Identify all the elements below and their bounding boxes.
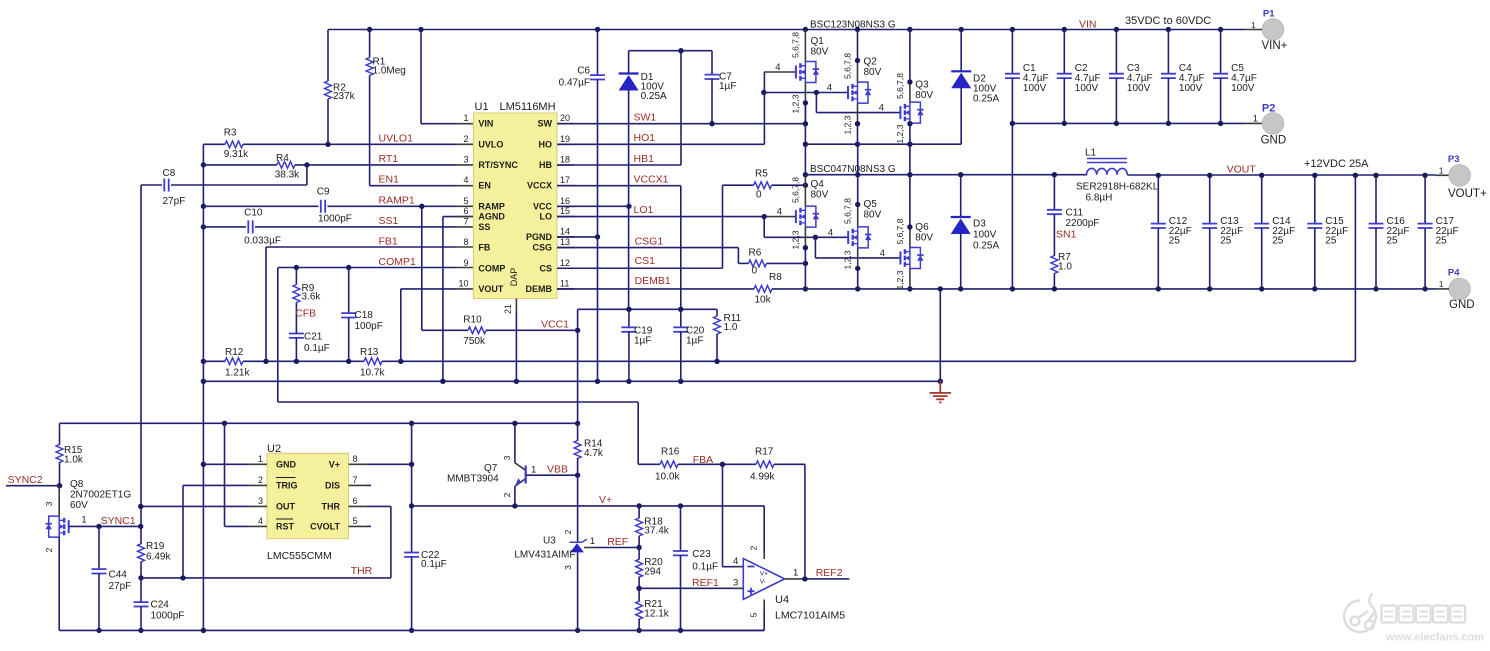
- svg-text:10.7k: 10.7k: [360, 368, 385, 379]
- svg-text:VIN: VIN: [478, 119, 493, 129]
- svg-text:80V: 80V: [811, 190, 829, 201]
- svg-text:SYNC2: SYNC2: [8, 474, 43, 486]
- resistor R2: [327, 30, 329, 82]
- svg-text:LMC7101AIM5: LMC7101AIM5: [775, 610, 845, 622]
- svg-text:10.0k: 10.0k: [655, 472, 680, 483]
- svg-text:C11: C11: [1066, 208, 1084, 219]
- svg-text:C23: C23: [692, 549, 711, 560]
- wire AGND left rail: [202, 144, 204, 630]
- svg-text:2: 2: [44, 547, 54, 552]
- svg-text:U4: U4: [775, 594, 789, 606]
- svg-text:SYNC1: SYNC1: [101, 515, 136, 527]
- svg-text:VOUT: VOUT: [1227, 164, 1257, 176]
- capacitor C24: [140, 578, 142, 602]
- svg-text:20: 20: [560, 113, 570, 123]
- svg-text:100V: 100V: [1231, 83, 1255, 94]
- svg-text:MMBT3904: MMBT3904: [447, 474, 499, 485]
- svg-text:CSG1: CSG1: [635, 236, 664, 248]
- svg-text:REF: REF: [607, 536, 628, 548]
- svg-text:80V: 80V: [864, 210, 882, 221]
- svg-text:1: 1: [590, 536, 595, 547]
- svg-text:DEMB1: DEMB1: [635, 275, 671, 287]
- diode D2: [960, 30, 962, 72]
- wire EN1: [370, 185, 456, 187]
- svg-text:VCC1: VCC1: [541, 319, 569, 331]
- svg-text:1000pF: 1000pF: [318, 214, 352, 225]
- resistor R9: [295, 268, 297, 285]
- capacitor C9: [203, 205, 318, 207]
- wire U2 RST pin4: [225, 525, 250, 527]
- svg-text:1,2,3: 1,2,3: [843, 115, 853, 134]
- svg-text:4: 4: [827, 83, 832, 94]
- capacitor C7: [711, 51, 713, 75]
- svg-text:R13: R13: [360, 347, 379, 358]
- svg-text:750k: 750k: [463, 336, 486, 347]
- svg-text:0.25A: 0.25A: [641, 91, 667, 102]
- svg-text:0.033µF: 0.033µF: [244, 236, 281, 247]
- wire FB1: [266, 246, 456, 248]
- svg-text:1,2,3: 1,2,3: [895, 124, 905, 143]
- wire AGND rail: [203, 380, 940, 382]
- svg-text:3: 3: [463, 155, 468, 165]
- wire VCC1 branch: [577, 309, 579, 423]
- wire CS1: [557, 267, 723, 269]
- capacitor C19: [628, 309, 630, 327]
- svg-text:7: 7: [463, 216, 468, 226]
- svg-text:THR: THR: [322, 502, 341, 512]
- wire CSG1: [557, 247, 738, 249]
- capacitor C15: [1314, 175, 1316, 223]
- svg-text:C9: C9: [317, 187, 330, 198]
- resistor R21: [638, 588, 640, 601]
- svg-text:13: 13: [560, 237, 570, 247]
- wire output GND stub: [1436, 288, 1449, 290]
- transistor Q1: [796, 62, 819, 83]
- svg-text:BSC123N08NS3 G: BSC123N08NS3 G: [810, 20, 896, 31]
- capacitor C6: [597, 30, 599, 75]
- svg-text:1µF: 1µF: [686, 336, 703, 347]
- svg-text:HO: HO: [539, 139, 553, 149]
- svg-text:2N7002ET1G: 2N7002ET1G: [70, 490, 131, 501]
- svg-text:Q6: Q6: [915, 222, 929, 233]
- svg-text:DIS: DIS: [325, 481, 340, 491]
- svg-text:TRIG: TRIG: [276, 481, 298, 491]
- capacitor C8: [306, 165, 308, 185]
- svg-text:SN1: SN1: [1056, 229, 1077, 241]
- svg-text:10k: 10k: [755, 295, 772, 306]
- svg-text:4: 4: [463, 175, 468, 185]
- svg-text:80V: 80V: [864, 67, 882, 78]
- resistor R1: [369, 30, 371, 58]
- svg-text:5,6,7,8: 5,6,7,8: [843, 53, 853, 79]
- svg-text:2200pF: 2200pF: [1066, 218, 1100, 229]
- svg-text:C21: C21: [304, 332, 323, 343]
- wire VCC pin16: [557, 205, 629, 207]
- svg-text:8: 8: [463, 237, 468, 247]
- svg-text:5,6,7,8: 5,6,7,8: [790, 177, 800, 203]
- svg-text:38.3k: 38.3k: [275, 170, 300, 181]
- svg-text:R8: R8: [769, 272, 782, 283]
- svg-text:2: 2: [463, 134, 468, 144]
- svg-text:6: 6: [463, 206, 468, 216]
- svg-text:18: 18: [560, 155, 570, 165]
- svg-text:4: 4: [258, 516, 263, 526]
- svg-text:FB1: FB1: [379, 236, 398, 248]
- svg-text:294: 294: [644, 567, 661, 578]
- svg-text:5,6,7,8: 5,6,7,8: [843, 198, 853, 224]
- svg-text:11: 11: [560, 278, 569, 288]
- op-amp U1 box LM5116MH: [473, 113, 557, 299]
- svg-text:6: 6: [353, 496, 358, 506]
- svg-text:1.21k: 1.21k: [225, 368, 250, 379]
- svg-text:C18: C18: [355, 310, 374, 321]
- svg-text:SER2918H-682KL: SER2918H-682KL: [1076, 182, 1159, 193]
- wire VIN pin1 drop: [420, 30, 422, 124]
- svg-text:VBB: VBB: [547, 464, 568, 476]
- svg-text:3.6k: 3.6k: [302, 292, 322, 303]
- svg-text:UVLO: UVLO: [478, 139, 503, 149]
- svg-text:1: 1: [1253, 113, 1258, 124]
- wire REF2 output: [785, 578, 805, 580]
- wire COMP1 route down: [277, 268, 279, 403]
- svg-text:Q4: Q4: [811, 179, 825, 190]
- svg-text:VCCX: VCCX: [527, 181, 552, 191]
- svg-text:UVLO1: UVLO1: [379, 133, 414, 145]
- op-amp U4 LMC7101AIM5: [743, 559, 784, 600]
- svg-text:6.49k: 6.49k: [146, 552, 171, 563]
- svg-text:1,2,3: 1,2,3: [790, 94, 800, 113]
- svg-text:VOUT: VOUT: [478, 284, 504, 294]
- svg-text:237k: 237k: [333, 91, 356, 102]
- resistor R15: [59, 423, 61, 445]
- svg-text:C44: C44: [109, 570, 128, 581]
- svg-text:VOUT+: VOUT+: [1448, 188, 1487, 200]
- svg-text:C8: C8: [163, 168, 176, 179]
- timer U2 box LMC555CMM: [267, 453, 349, 538]
- resistor R20: [638, 548, 640, 560]
- wire SW node to L1: [805, 174, 1087, 176]
- wire C8 sync column: [140, 185, 142, 526]
- svg-text:C24: C24: [151, 600, 170, 611]
- wire HO1: [557, 143, 764, 145]
- svg-text:0: 0: [756, 190, 762, 201]
- svg-text:100pF: 100pF: [355, 321, 383, 332]
- capacitor C18: [348, 268, 350, 314]
- svg-text:0.25A: 0.25A: [973, 94, 999, 105]
- wire AGND pin6: [443, 216, 474, 218]
- capacitor C11 snubber: [1053, 175, 1055, 210]
- wire VCCX1: [557, 185, 681, 187]
- svg-text:1.0: 1.0: [724, 322, 738, 333]
- svg-text:Q7: Q7: [484, 463, 498, 474]
- svg-text:12.1k: 12.1k: [644, 609, 669, 620]
- svg-text:EN1: EN1: [379, 174, 400, 186]
- wire SYNC1: [69, 525, 141, 527]
- wire FBA to pin4: [722, 464, 724, 566]
- svg-text:1: 1: [1439, 165, 1444, 175]
- svg-text:R5: R5: [755, 169, 768, 180]
- wire VOUT rail: [1126, 174, 1128, 177]
- svg-text:7: 7: [353, 475, 358, 485]
- svg-text:15: 15: [560, 206, 570, 216]
- svg-text:LMV431AIMF: LMV431AIMF: [514, 550, 575, 561]
- svg-text:80V: 80V: [811, 47, 829, 58]
- wire U2 V+ pin8: [367, 463, 412, 465]
- wire U2 DIS stub: [367, 484, 372, 486]
- svg-text:AGND: AGND: [478, 212, 505, 222]
- svg-text:REF2: REF2: [816, 567, 843, 579]
- svg-text:R6: R6: [749, 248, 762, 259]
- svg-text:Q8: Q8: [70, 479, 84, 490]
- svg-text:GND: GND: [1261, 135, 1287, 147]
- svg-text:1µF: 1µF: [634, 336, 651, 347]
- transistor Q4: [796, 206, 819, 227]
- svg-text:HB1: HB1: [634, 153, 655, 165]
- resistor R16: [638, 463, 660, 465]
- svg-text:25: 25: [1169, 236, 1181, 247]
- svg-text:CS: CS: [539, 263, 552, 273]
- svg-text:FBA: FBA: [693, 454, 713, 466]
- resistor R12: [203, 360, 225, 362]
- svg-text:4: 4: [777, 207, 782, 218]
- resistor R11: [716, 309, 718, 316]
- transistor Q2: [848, 82, 871, 103]
- svg-text:4: 4: [880, 248, 885, 259]
- svg-text:RST: RST: [276, 522, 295, 532]
- svg-text:5: 5: [749, 612, 759, 617]
- svg-text:4.99k: 4.99k: [750, 472, 775, 483]
- svg-text:14: 14: [560, 226, 570, 236]
- capacitor C22: [411, 423, 413, 552]
- svg-text:3: 3: [733, 578, 738, 589]
- svg-text:C6: C6: [577, 66, 590, 77]
- svg-text:0.1µF: 0.1µF: [692, 562, 718, 573]
- resistor R10: [421, 206, 423, 330]
- svg-text:R12: R12: [225, 347, 244, 358]
- svg-text:10: 10: [458, 278, 468, 288]
- svg-text:5,6,7,8: 5,6,7,8: [895, 73, 905, 99]
- svg-text:V+: V+: [760, 570, 768, 577]
- transistor Q5: [848, 227, 871, 248]
- wire GND drop mid: [939, 289, 941, 381]
- svg-text:4: 4: [775, 62, 780, 73]
- svg-text:CFB: CFB: [295, 308, 316, 320]
- port P1: [1262, 19, 1284, 41]
- wire VOUT pin10: [401, 288, 456, 290]
- wire V+ rail: [412, 505, 765, 507]
- svg-text:LO1: LO1: [634, 204, 654, 216]
- wire input GND rail: [1012, 122, 1244, 124]
- wire HB1: [557, 164, 681, 166]
- diode D1: [628, 51, 630, 74]
- resistor R17: [723, 463, 757, 465]
- capacitor C10: [203, 226, 246, 228]
- resistor R3: [203, 143, 225, 145]
- svg-text:0.47µF: 0.47µF: [559, 78, 590, 89]
- wire VIN top rail: [328, 29, 1244, 31]
- svg-text:R3: R3: [224, 128, 237, 139]
- svg-text:VIN+: VIN+: [1262, 40, 1288, 52]
- wire U2 TRIG pin2: [183, 484, 249, 486]
- capacitor C16: [1375, 175, 1377, 223]
- svg-text:C10: C10: [244, 208, 263, 219]
- resistor R19: [140, 526, 142, 544]
- svg-text:SS: SS: [478, 222, 490, 232]
- transistor Q8: [58, 486, 60, 516]
- svg-text:D3: D3: [973, 219, 986, 230]
- svg-text:1: 1: [1251, 20, 1256, 30]
- svg-text:100V: 100V: [973, 230, 997, 241]
- capacitor C12: [1157, 175, 1159, 223]
- svg-text:SW1: SW1: [634, 112, 657, 124]
- svg-text:17: 17: [560, 175, 570, 185]
- wire GND link column: [1011, 123, 1013, 289]
- svg-text:P3: P3: [1448, 154, 1460, 165]
- svg-text:1: 1: [793, 568, 798, 579]
- wire SW1: [557, 123, 805, 125]
- svg-text:1000pF: 1000pF: [151, 611, 185, 622]
- svg-text:RAMP1: RAMP1: [379, 195, 415, 207]
- svg-text:COMP: COMP: [478, 263, 505, 273]
- svg-text:THR: THR: [351, 565, 373, 577]
- svg-text:1: 1: [1439, 279, 1444, 289]
- svg-text:2: 2: [563, 529, 573, 534]
- svg-text:1.0Meg: 1.0Meg: [373, 66, 406, 77]
- svg-text:25: 25: [1387, 236, 1399, 247]
- svg-text:CS1: CS1: [635, 255, 656, 267]
- resistor R13: [266, 360, 364, 362]
- svg-text:P2: P2: [1262, 103, 1275, 115]
- svg-text:100V: 100V: [1127, 83, 1151, 94]
- svg-text:4: 4: [879, 103, 884, 114]
- svg-text:3: 3: [44, 501, 54, 506]
- svg-text:25: 25: [1436, 236, 1448, 247]
- wire THR junction row: [141, 577, 391, 579]
- svg-text:80V: 80V: [915, 90, 933, 101]
- wire SW bus: [805, 143, 961, 145]
- capacitor C17: [1424, 175, 1426, 223]
- svg-text:COMP1: COMP1: [379, 256, 417, 268]
- svg-text:9: 9: [463, 258, 468, 268]
- svg-text:HB: HB: [539, 160, 552, 170]
- wire U4 V+ pin2: [763, 506, 765, 553]
- svg-text:CVOLT: CVOLT: [310, 522, 340, 532]
- watermark: [1344, 594, 1376, 633]
- svg-text:1.0: 1.0: [1058, 262, 1072, 273]
- svg-text:VCCX1: VCCX1: [634, 174, 669, 186]
- svg-text:1: 1: [81, 515, 86, 526]
- svg-text:P1: P1: [1263, 8, 1275, 19]
- svg-text:R10: R10: [463, 315, 482, 326]
- resistor R7: [1051, 256, 1058, 274]
- svg-text:V+: V+: [329, 460, 340, 470]
- svg-text:4: 4: [733, 556, 738, 567]
- svg-text:5,6,7,8: 5,6,7,8: [790, 32, 800, 58]
- capacitor C20: [680, 309, 682, 327]
- svg-text:P4: P4: [1448, 267, 1460, 278]
- wire U2 CVOLT stub: [367, 525, 372, 527]
- svg-text:RT/SYNC: RT/SYNC: [478, 160, 518, 170]
- svg-text:BSC047N08NS3 G: BSC047N08NS3 G: [810, 164, 896, 175]
- svg-text:100V: 100V: [1179, 83, 1203, 94]
- svg-text:25: 25: [1220, 236, 1232, 247]
- svg-text:12: 12: [560, 258, 570, 268]
- svg-text:4: 4: [828, 227, 833, 238]
- wire LO1: [557, 216, 764, 218]
- resistor R6: [738, 262, 748, 264]
- resistor R14: [577, 423, 579, 441]
- resistor R18: [638, 506, 640, 518]
- wire gate chain HO: [764, 71, 796, 73]
- wire DAP pin21: [515, 299, 517, 313]
- svg-text:1: 1: [463, 113, 468, 123]
- transistor Q6: [900, 248, 923, 269]
- svg-text:OUT: OUT: [276, 502, 296, 512]
- svg-text:Q3: Q3: [915, 80, 929, 91]
- transistor Q7: [514, 423, 516, 463]
- svg-text:+12VDC 25A: +12VDC 25A: [1304, 158, 1369, 170]
- svg-text:Q1: Q1: [811, 36, 825, 47]
- svg-text:U3: U3: [543, 536, 556, 547]
- svg-text:0: 0: [752, 266, 758, 277]
- svg-text:CSG: CSG: [532, 243, 552, 253]
- svg-text:100V: 100V: [1023, 83, 1047, 94]
- svg-text:1,2,3: 1,2,3: [790, 230, 800, 249]
- svg-text:1,2,3: 1,2,3: [843, 250, 853, 269]
- port P4: [1449, 278, 1471, 300]
- svg-text:U2: U2: [267, 443, 281, 455]
- svg-text:21: 21: [503, 304, 513, 314]
- wire U4 V- pin5: [763, 600, 765, 611]
- wire U2 THR pin6: [367, 505, 391, 507]
- capacitor C3: [1115, 30, 1117, 74]
- svg-text:2: 2: [258, 475, 263, 485]
- svg-text:GND: GND: [1449, 299, 1475, 311]
- svg-text:5: 5: [463, 196, 468, 206]
- svg-text:0.1µF: 0.1µF: [421, 559, 447, 570]
- capacitor C1: [1011, 30, 1013, 74]
- svg-text:1.0k: 1.0k: [64, 455, 84, 466]
- svg-text:RT1: RT1: [379, 153, 399, 165]
- wire REF: [584, 547, 597, 549]
- svg-text:35VDC to 60VDC: 35VDC to 60VDC: [1125, 15, 1211, 27]
- svg-text:80V: 80V: [915, 233, 933, 244]
- svg-text:LO: LO: [540, 212, 553, 222]
- svg-text:Q5: Q5: [864, 199, 878, 210]
- svg-text:3: 3: [563, 565, 573, 570]
- svg-text:0.25A: 0.25A: [973, 241, 999, 252]
- svg-text:0.1µF: 0.1µF: [304, 343, 330, 354]
- wire VOUT sense riser: [1354, 175, 1356, 361]
- svg-text:5: 5: [353, 516, 358, 526]
- transistor Q3: [900, 102, 923, 123]
- svg-text:R17: R17: [755, 447, 774, 458]
- svg-text:U1: U1: [475, 101, 489, 113]
- svg-text:16: 16: [560, 196, 570, 206]
- svg-text:1,2,3: 1,2,3: [895, 270, 905, 289]
- svg-text:SS1: SS1: [379, 215, 399, 227]
- svg-text:9.31k: 9.31k: [224, 149, 249, 160]
- svg-text:6.8µH: 6.8µH: [1086, 193, 1113, 204]
- svg-text:www.elecfans.com: www.elecfans.com: [1385, 632, 1484, 644]
- wire PGND pin14: [557, 236, 598, 238]
- svg-text:5,6,7,8: 5,6,7,8: [895, 218, 905, 244]
- svg-text:R16: R16: [661, 447, 680, 458]
- svg-text:25: 25: [1325, 236, 1337, 247]
- svg-text:1: 1: [531, 465, 536, 476]
- wire V+ top line: [60, 422, 578, 424]
- svg-text:2: 2: [502, 492, 512, 497]
